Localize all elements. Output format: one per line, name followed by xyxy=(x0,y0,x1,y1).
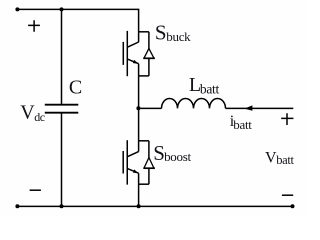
svg-text:S: S xyxy=(155,21,167,45)
svg-text:dc: dc xyxy=(34,110,45,124)
svg-text:buck: buck xyxy=(166,29,191,44)
svg-text:batt: batt xyxy=(200,82,220,97)
svg-text:V: V xyxy=(265,150,277,167)
svg-text:C: C xyxy=(69,76,82,98)
svg-text:batt: batt xyxy=(276,153,294,167)
svg-text:boost: boost xyxy=(164,149,191,164)
svg-text:batt: batt xyxy=(233,117,252,132)
svg-text:V: V xyxy=(20,101,35,123)
